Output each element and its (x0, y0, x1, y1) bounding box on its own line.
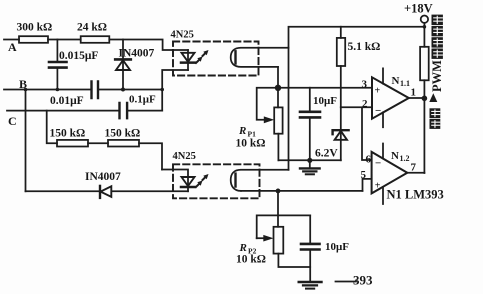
svg-text:R: R (238, 125, 246, 137)
svg-text:+: + (375, 86, 381, 97)
resistor R2 24kΩ (81, 36, 110, 43)
svg-text:4N25: 4N25 (173, 151, 196, 162)
annotation chinese glyphs 驱动信号 (432, 15, 443, 59)
capacitor C5 10μF (309, 215, 311, 281)
wire ground bus (278, 159, 340, 161)
diode D1 IN4007 (122, 40, 124, 90)
svg-text:300 kΩ: 300 kΩ (17, 22, 53, 34)
svg-text:0.1μF: 0.1μF (129, 94, 156, 106)
phototransistor in U3 (234, 174, 236, 187)
svg-text:24 kΩ: 24 kΩ (77, 22, 107, 34)
op-amp N1.2 (372, 152, 408, 194)
svg-text:1.1: 1.1 (400, 79, 410, 88)
op-amp N1.1 (372, 77, 409, 118)
+18V terminal (421, 16, 428, 23)
opto U3 emitter wire to pin 5 (241, 190, 363, 192)
svg-text:+18V: +18V (404, 2, 433, 16)
svg-text:6: 6 (366, 154, 372, 166)
svg-text:150 kΩ: 150 kΩ (50, 128, 86, 140)
wire U3 LED cathode (112, 190, 188, 192)
wire noninverting input pin 3 (278, 87, 372, 89)
resistor R6 150kΩ (108, 140, 139, 147)
optocoupler U2 4N25 (dashed box) (173, 42, 259, 76)
wire U2 collector to +18V rail (259, 27, 425, 48)
node dot D1-lineB (121, 88, 125, 92)
svg-text:IN4007: IN4007 (119, 48, 155, 60)
capacitor C3 0.1μF (series in line C) (120, 103, 128, 118)
svg-text:IN4007: IN4007 (85, 171, 121, 183)
phototransistor in U2 (234, 51, 236, 63)
svg-text:1: 1 (411, 87, 417, 99)
LED in U2 (187, 50, 189, 70)
150k chain from line C (47, 111, 162, 170)
svg-text:N1 LM393: N1 LM393 (387, 188, 444, 202)
potentiometer RP2 10kΩ (257, 191, 311, 238)
capacitor C1 0.015μF (49, 40, 67, 90)
potentiometer RP1 10kΩ (257, 88, 278, 120)
wire op-amp2 output up (407, 172, 424, 174)
svg-text:7: 7 (411, 162, 417, 174)
svg-text:10μF: 10μF (325, 241, 349, 253)
wire pin 5 (363, 179, 372, 191)
arrow up (PWM) (429, 93, 437, 102)
svg-text:0.01μF: 0.01μF (50, 95, 84, 107)
svg-text:10 kΩ: 10 kΩ (236, 254, 266, 266)
svg-text:2: 2 (362, 98, 368, 110)
ground G2 (299, 281, 322, 283)
svg-text:3: 3 (362, 78, 368, 90)
svg-text:4N25: 4N25 (171, 30, 194, 41)
optocoupler U3 4N25 (dashed box) (173, 164, 260, 198)
wire output net (409, 97, 425, 99)
capacitor C2 0.01μF (series in line B) (92, 82, 99, 99)
light arrows U2 (203, 54, 205, 56)
svg-text:−: − (375, 158, 381, 170)
ground G1 (309, 160, 311, 167)
annotation chinese 封锁 (blocking) (430, 108, 441, 129)
svg-text:PWM: PWM (430, 60, 444, 92)
wire U2 emitter to pin3 node (277, 67, 279, 88)
wire line B down to D2 (25, 90, 27, 192)
node junction pin3 (275, 85, 281, 91)
resistor R3 5.1kΩ (340, 27, 342, 108)
svg-text:−: − (375, 105, 381, 117)
wire node B/C to LED1 cathode (162, 70, 188, 111)
wire line C (7, 110, 162, 112)
svg-text:10μF: 10μF (313, 95, 337, 107)
wire +18V vertical to U3 collector (288, 48, 290, 170)
caption 393 (336, 281, 357, 283)
svg-text:+: + (375, 181, 381, 192)
svg-text:6.2V: 6.2V (315, 148, 338, 160)
svg-text:0.015μF: 0.015μF (59, 50, 98, 62)
wire line B (4, 89, 162, 91)
LED in U3 (162, 170, 188, 192)
annotation PWM drive signal (vertical) (430, 60, 444, 92)
node dot rail (423, 25, 427, 29)
capacitor C4 10μF (309, 88, 311, 161)
light arrows U3 (203, 178, 205, 180)
diode D2 IN4007 (99, 186, 101, 198)
svg-text:5.1 kΩ: 5.1 kΩ (348, 41, 381, 53)
svg-text:N: N (392, 75, 400, 87)
svg-text:N: N (391, 150, 399, 162)
svg-text:1.2: 1.2 (400, 154, 410, 163)
svg-text:10 kΩ: 10 kΩ (236, 138, 266, 150)
wire inverting reference pin2/pin6 (341, 107, 372, 160)
wire line A (4, 40, 188, 51)
pull-up resistor R4 (423, 23, 425, 173)
resistor R5 150kΩ (57, 140, 88, 147)
svg-text:R: R (239, 242, 247, 254)
svg-text:393: 393 (353, 273, 373, 288)
svg-text:C: C (8, 114, 17, 128)
node dot C1-lineB (56, 88, 60, 92)
svg-text:A: A (8, 40, 17, 54)
resistor R1 300kΩ (19, 36, 48, 43)
svg-text:150 kΩ: 150 kΩ (105, 128, 141, 140)
zener VD 6.2V (340, 107, 342, 160)
